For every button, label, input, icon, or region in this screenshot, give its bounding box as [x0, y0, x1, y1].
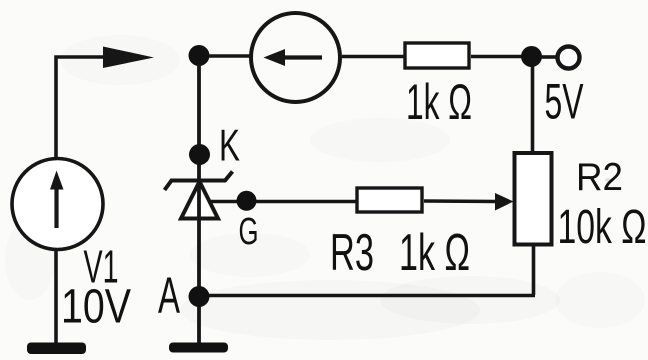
wire node 5V down to R2 [531, 66, 535, 152]
terminal 5V [558, 47, 580, 69]
potentiometer R2 body [515, 153, 552, 245]
current source U1 [251, 13, 340, 102]
svg-text:K: K [219, 122, 240, 171]
node K [189, 144, 210, 165]
resistor R3 body [357, 188, 422, 212]
svg-text:10V: 10V [61, 281, 131, 334]
svg-text:R2: R2 [576, 156, 623, 199]
svg-text:5V: 5V [545, 74, 584, 130]
svg-text:1k Ω: 1k Ω [399, 224, 470, 282]
ground (V1) [27, 343, 86, 355]
resistor 1k ohm (top) [405, 43, 469, 68]
wire resistor to node 5V [471, 55, 523, 59]
svg-text:R3: R3 [330, 224, 374, 282]
svg-text:10k Ω: 10k Ω [558, 201, 647, 254]
arrow inside U1 [264, 49, 323, 66]
node G [237, 191, 257, 211]
arrowhead current-flow from V1 [103, 47, 154, 69]
wire R3 to R2 wiper [424, 199, 498, 203]
node A [189, 286, 210, 307]
wire U1 to resistor 1k [342, 55, 404, 59]
wire node to current source [208, 54, 250, 58]
voltage source V1 [12, 159, 103, 250]
wire gate to R3 [209, 200, 356, 204]
wire V1 bottom to ground [54, 249, 58, 344]
svg-text:G: G [239, 211, 259, 253]
wire V1 top to corner [56, 57, 106, 157]
thyristor triangle [181, 182, 218, 219]
wire main vertical K-A [197, 64, 201, 344]
wire node to terminal [541, 55, 556, 59]
svg-text:A: A [158, 267, 180, 324]
arrow inside V1 [50, 171, 64, 229]
node top junction [189, 45, 210, 66]
node 5V junction [521, 46, 542, 67]
thyristor cathode bar [165, 172, 233, 191]
arrowhead wiper into R2 [495, 193, 514, 211]
svg-text:1k Ω: 1k Ω [406, 74, 472, 130]
wire R2 bottom [532, 247, 536, 296]
ground (A) [169, 343, 228, 353]
wire bottom rail [199, 294, 535, 298]
